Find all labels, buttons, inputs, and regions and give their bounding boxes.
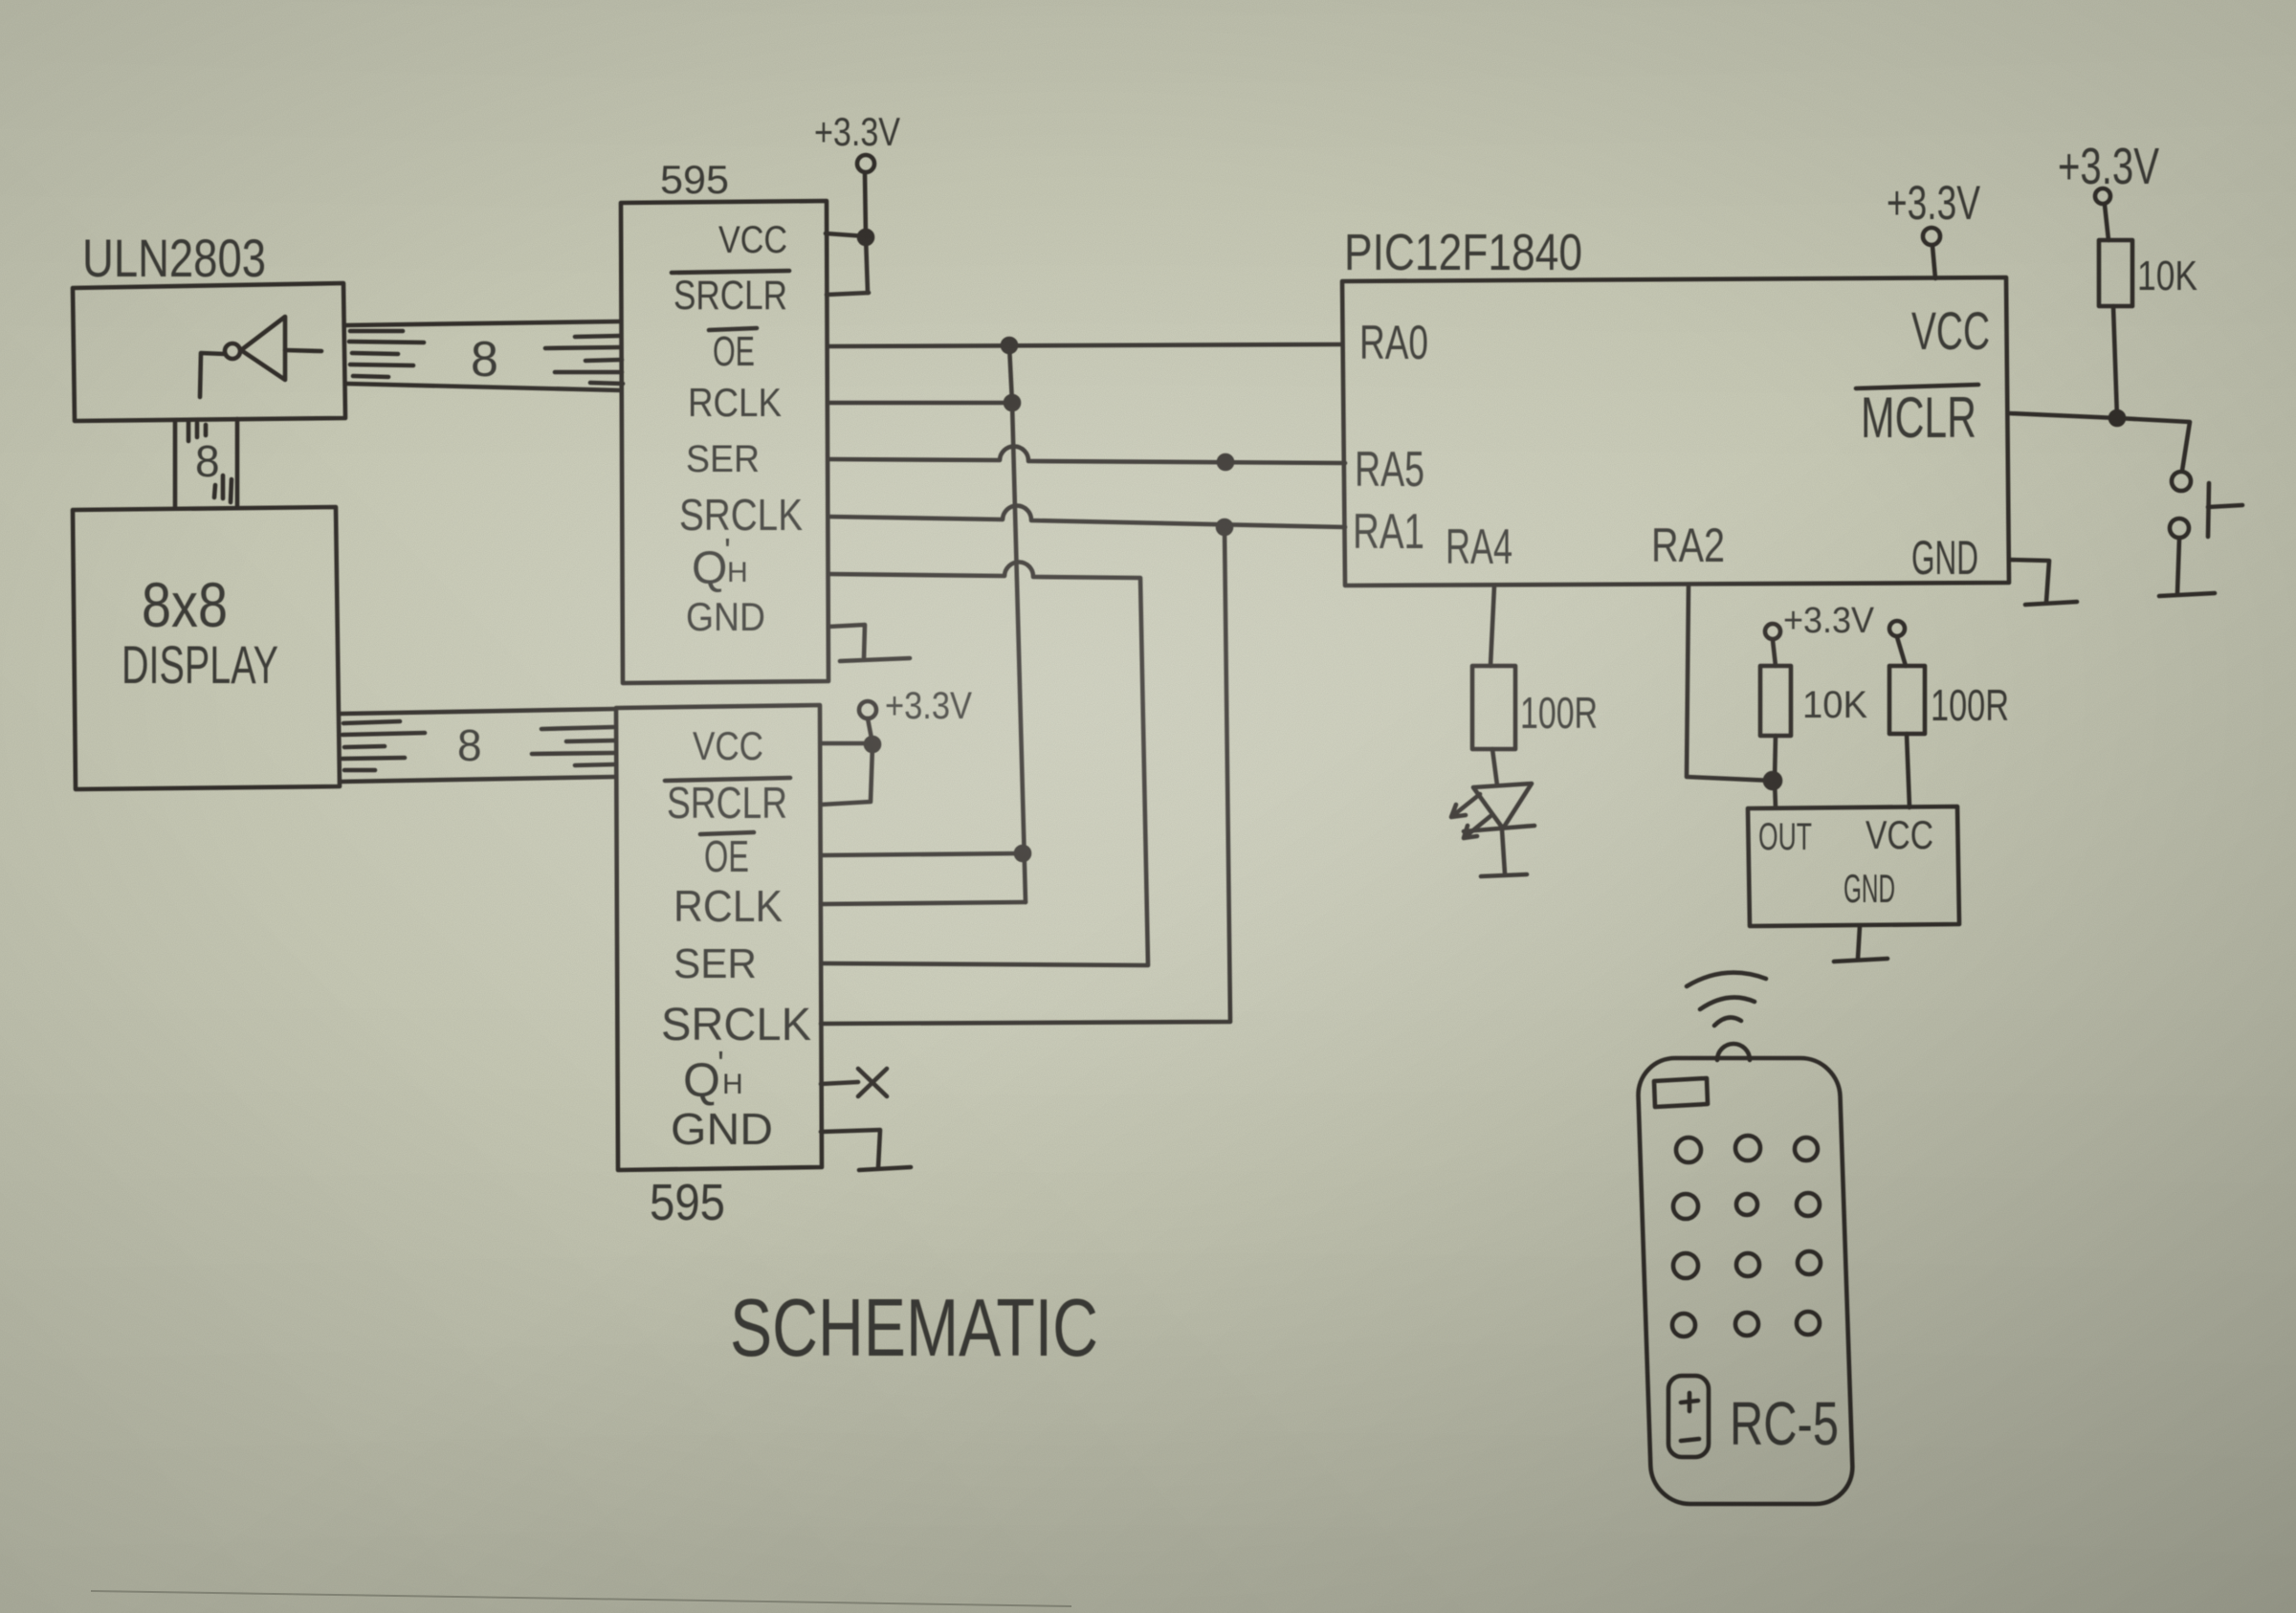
ground symbol U5 xyxy=(1834,959,1888,961)
wire U2 OE to PIC RA0 xyxy=(828,344,1342,346)
resistor R4 100R IR supply xyxy=(1889,666,2009,734)
wire U3 RCLK to rail xyxy=(821,902,1026,904)
ground symbol SW1 xyxy=(2159,593,2215,596)
wire U3 OE to rail xyxy=(821,853,1023,855)
junction RA2 / R3 / IR OUT xyxy=(1765,773,1780,788)
IR waves from remote xyxy=(1687,973,1766,1026)
bus U1 to display (8 lines) xyxy=(175,419,237,508)
U3 pin label RCLK xyxy=(673,881,783,931)
remote label RC-5 xyxy=(1730,1389,1839,1458)
IR receiver U5 body xyxy=(1748,806,1959,926)
remote button row 2 xyxy=(1673,1193,1820,1219)
junction MCLR pull-up node xyxy=(2110,411,2124,425)
wire U2 SRCLR to +3.3V xyxy=(827,293,869,295)
U4 pin label VCC xyxy=(1911,300,1990,361)
wire U4 RA4 to R2 xyxy=(1490,586,1494,666)
LED D1 xyxy=(1451,784,1534,838)
8x8 display block xyxy=(73,507,340,789)
junction U3 OE / rail xyxy=(1016,847,1029,860)
junction RCLK net / rail xyxy=(1005,396,1019,409)
U3 pin label Q'H xyxy=(683,1044,743,1107)
shift register U2 595 label xyxy=(660,157,729,202)
resistor R3 10K IR pull-up xyxy=(1760,666,1867,736)
U3 pin label SRCLR (active low) xyxy=(665,778,790,828)
wire U4 RA2 to IR receiver node xyxy=(1687,586,1773,781)
U2 pin label OE (active low) xyxy=(709,328,757,375)
+3.3V supply terminal for pull-up xyxy=(2058,138,2159,240)
wire U3 GND to ground xyxy=(821,1130,880,1167)
U3 pin label GND xyxy=(671,1104,773,1154)
U5 pin label OUT xyxy=(1758,816,1812,858)
remote control RC-5 body xyxy=(1637,1044,1853,1504)
+3.3V supply terminal for U2 xyxy=(814,109,900,293)
IC U1 ULN2803 body xyxy=(73,283,345,421)
U3 Q'H unconnected stub with X xyxy=(821,1069,887,1096)
faint paper crease bottom left xyxy=(91,1591,1071,1606)
IC U1 ULN2803 label xyxy=(82,228,266,288)
bus U1 to 595 #1 (8 lines) xyxy=(346,321,623,390)
+3.3V supply terminal for U3 xyxy=(859,685,972,743)
remote IR window xyxy=(1654,1078,1708,1107)
vertical rail joining OE and RCLK nets of both 595s xyxy=(1009,345,1026,902)
shift register U2 595 body xyxy=(621,201,828,683)
remote button row 4 xyxy=(1672,1312,1820,1337)
ground symbol U3 xyxy=(859,1167,911,1170)
U4 pin label MCLR (active low) xyxy=(1856,385,1978,450)
U3 pin label VCC xyxy=(693,723,763,768)
buffer symbol inside U1 xyxy=(200,317,321,397)
U4 pin label RA2 xyxy=(1651,519,1725,572)
U4 pin label GND xyxy=(1911,531,1978,585)
wire SW1 to ground xyxy=(2177,539,2179,593)
wire R2 to LED D1 xyxy=(1492,749,1497,785)
U3 pin label OE (active low) xyxy=(700,831,754,881)
U2 pin label SRCLR (active low) xyxy=(672,271,789,319)
wire U3 VCC to +3.3V xyxy=(821,741,872,746)
resistor R1 10K pull-up xyxy=(2099,240,2197,306)
wire U2 GND to ground xyxy=(828,625,865,659)
U3 pin label SER xyxy=(673,940,757,987)
U4 pin label RA5 xyxy=(1355,442,1424,497)
wire LED D1 to ground xyxy=(1502,829,1505,873)
wire U3 SRCLK to RA1 net xyxy=(821,529,1230,1024)
wire R3 to node and IR OUT xyxy=(1775,736,1776,807)
U4 pin label RA4 xyxy=(1446,519,1512,575)
wire U2 SRCLK to PIC RA1 (hops rail) xyxy=(828,506,1345,527)
resistor R2 100R LED series xyxy=(1472,666,1598,749)
remote button row 3 xyxy=(1673,1251,1821,1278)
remote button row 1 xyxy=(1676,1136,1818,1162)
wire U2 RCLK to rail xyxy=(828,401,1012,406)
+3.3V supply terminal for R3 xyxy=(1765,601,1875,666)
wire U2 VCC to +3.3V xyxy=(826,233,866,236)
bus width label 8 xyxy=(457,720,482,770)
title SCHEMATIC xyxy=(730,1283,1098,1374)
U2 pin label VCC xyxy=(718,219,787,261)
junction U3 VCC node xyxy=(866,738,879,751)
junction RA1 net to U3 SRCLK branch xyxy=(1218,520,1231,534)
U2 pin label Q'H xyxy=(692,531,748,594)
wire U2 SER to PIC RA5 (hops rail) xyxy=(828,447,1345,463)
bus display to 595 #2 (8 lines) xyxy=(341,709,615,782)
U2 pin label GND xyxy=(686,594,765,639)
U2 pin label SER xyxy=(686,438,760,480)
U4 pin label RA1 xyxy=(1353,504,1424,560)
junction U2 VCC node xyxy=(859,231,872,244)
wire U4 MCLR to pull-up node xyxy=(2009,413,2190,471)
bus width label 8 xyxy=(471,332,498,387)
remote battery symbol xyxy=(1668,1376,1709,1457)
bus width label 8 xyxy=(195,436,220,486)
+3.3V supply terminal for R4 xyxy=(1889,621,1906,666)
wire R4 to IR VCC xyxy=(1907,734,1910,807)
wire U5 GND to ground xyxy=(1858,926,1860,959)
+3.3V supply terminal for U4 VCC xyxy=(1887,176,1980,278)
ground symbol LED xyxy=(1481,874,1527,876)
U5 pin label VCC xyxy=(1865,812,1933,857)
wire U2 Q'H to U3 SER (hops rail) xyxy=(823,562,1148,965)
U4 pin label RA0 xyxy=(1359,316,1428,369)
U2 pin label RCLK xyxy=(688,380,782,425)
push button SW1 xyxy=(2170,472,2242,538)
microcontroller U4 PIC12F1840 label xyxy=(1344,224,1582,281)
wire U4 GND to ground xyxy=(2009,560,2049,602)
wire U3 SRCLR to +3.3V xyxy=(821,746,872,805)
U2 pin label SRCLK xyxy=(679,490,803,540)
junction on RA5 net xyxy=(1219,455,1232,469)
shift register U3 595 body xyxy=(616,705,822,1170)
wire R1 to MCLR node xyxy=(2113,306,2117,418)
ground symbol U2 xyxy=(840,658,910,661)
U3 pin label SRCLK xyxy=(661,1000,811,1050)
ground symbol U4 xyxy=(2025,602,2077,605)
microcontroller U4 body xyxy=(1342,277,2009,586)
junction OE net / vertical rail xyxy=(1003,339,1016,352)
shift register U3 595 label xyxy=(650,1174,725,1231)
U5 pin label GND xyxy=(1843,866,1895,911)
